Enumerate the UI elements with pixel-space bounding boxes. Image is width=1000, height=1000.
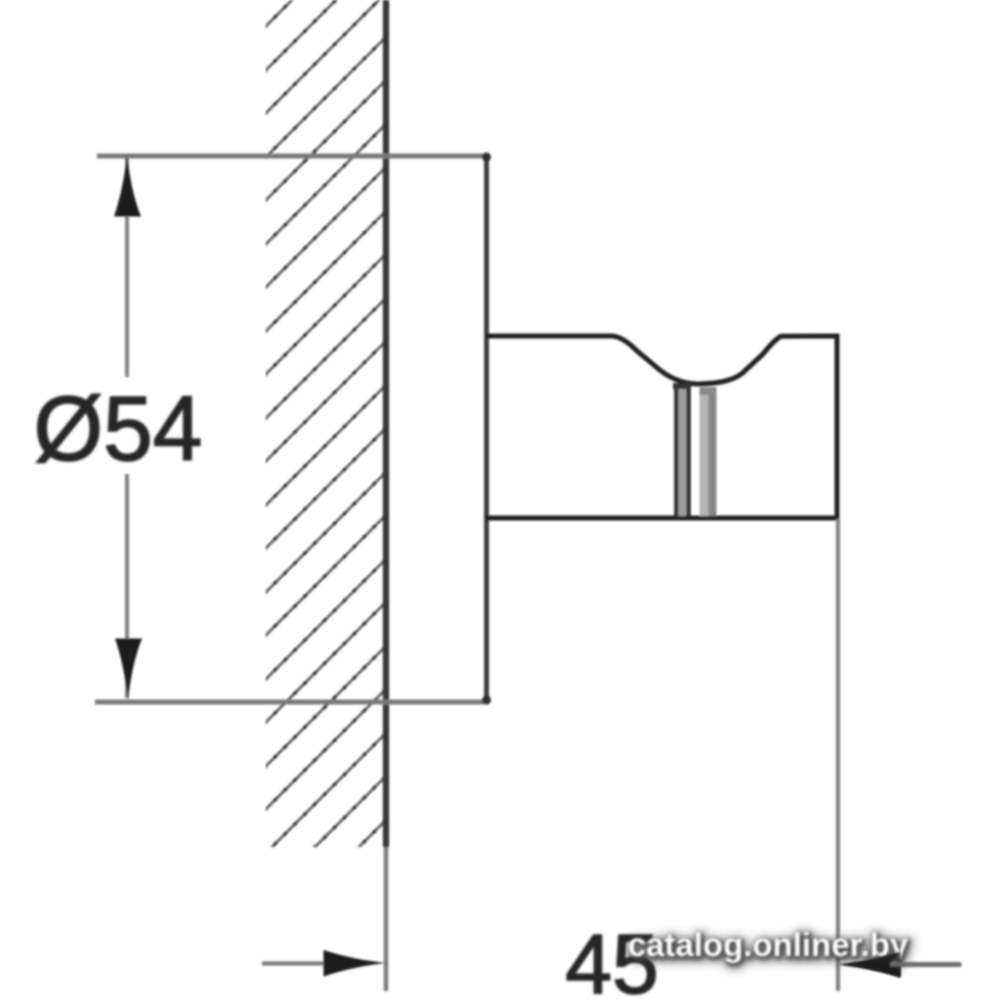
arrowhead left redraw over watermark: [839, 952, 961, 978]
knob shading band dark part: [709, 387, 717, 516]
arrowhead up: [114, 155, 141, 217]
wall hatching: [260, 0, 384, 989]
dimension line O54 lower segment: [125, 474, 129, 698]
dimension line 45 left segment: [262, 961, 330, 965]
hatch bead dots: [260, 0, 384, 989]
corner dot top: [482, 153, 491, 162]
dimension line O54 upper segment: [125, 158, 129, 377]
escutcheon plate top line / upper extension line: [97, 154, 489, 159]
knob neck gray fill: [678, 387, 686, 516]
knob stem line left: [674, 383, 678, 517]
svg-text:catalog.onliner.by: catalog.onliner.by: [628, 926, 909, 963]
arrowhead left: [839, 952, 901, 978]
dimension text O54: [34, 378, 203, 481]
dimension line 45 right segment: [890, 962, 961, 966]
arrowhead down: [115, 639, 142, 701]
knob shading band light part: [700, 387, 709, 516]
arrowhead right: [324, 950, 387, 977]
hook body outline: [486, 336, 837, 518]
escutcheon plate bottom line / lower extension line: [95, 700, 489, 705]
extension line from hook face down: [836, 519, 840, 991]
dimension text 45: [565, 917, 658, 1000]
knob shading band top shade: [700, 387, 717, 395]
wall face line (lower gray part): [384, 847, 389, 991]
knob stem line middle: [686, 384, 691, 517]
corner dot bottom: [482, 696, 491, 705]
knob neck top dark cap: [673, 383, 691, 389]
escutcheon plate right edge: [484, 153, 489, 703]
svg-text:Ø54: Ø54: [34, 378, 203, 481]
wall face line (upper dark part): [383, 0, 389, 847]
